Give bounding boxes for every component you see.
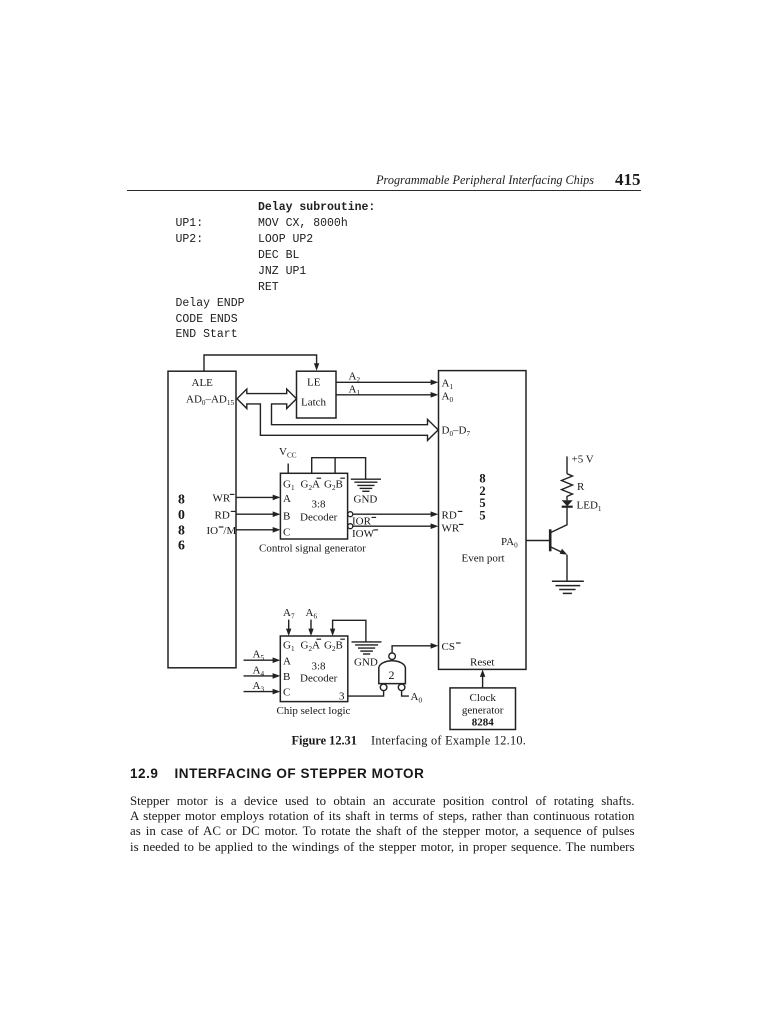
ground GND3 (emitter) [552,581,584,593]
wire A0 to gate right input [402,691,409,697]
svg-text:A: A [283,656,291,668]
wire clock 8284 to 8255 Reset [480,670,485,688]
wire A4 to U2 B [244,673,281,679]
svg-text:WR: WR [442,523,460,535]
svg-text:G2A: G2A [301,479,321,493]
svg-text:Even port: Even port [462,552,505,564]
wire U2 G2B to ground GND2 [330,620,366,641]
gate G2 NAND body [379,661,406,684]
svg-text:VCC: VCC [279,446,297,460]
svg-text:/M: /M [223,525,236,537]
section heading 12.9 [130,766,424,781]
label 3:8 Decoder (U1) [300,499,338,524]
svg-text:A6: A6 [306,607,318,621]
svg-text:3:8: 3:8 [312,661,327,673]
svg-text:G1: G1 [283,640,295,654]
CPU 8086 box [168,371,236,668]
label 8086 vertical [178,492,185,553]
bus AD0-AD15 double arrow with branch to D0-D7 (hollow) [237,389,438,440]
svg-text:R: R [577,481,585,493]
wire RD- 8086 to U1 B [236,511,280,517]
label RD- (8255 pin) [442,510,463,522]
transistor Q1 base bar [549,529,552,551]
label A1 (8255 pin) [442,378,454,392]
transistor Q1 emitter with arrow [551,547,568,555]
assembly code listing [175,199,177,201]
label Latch [301,397,327,409]
svg-text:PA0: PA0 [501,536,518,550]
figure caption [292,734,527,748]
svg-text:LE: LE [307,377,321,389]
label G1 G2A- G2B- (decoder U1 top row) [283,478,345,492]
label GND2 [354,657,378,669]
wire A7 into U2 G1 [286,620,291,636]
label A0 (gate input) [411,691,423,705]
svg-text:Decoder: Decoder [300,673,338,685]
svg-text:RD: RD [442,510,457,522]
label LED1 [577,500,602,514]
svg-text:Latch: Latch [301,397,327,409]
svg-text:A1: A1 [442,378,454,392]
label Reset (8255 pin) [470,657,494,669]
wire A6 into U2 G2A [308,620,313,636]
label R [577,481,585,493]
running head [0,173,594,188]
svg-text:IO: IO [207,525,219,537]
label A B C (decoder U1 inputs) [283,493,291,539]
label 8255 vertical [479,472,485,523]
label D0-D7 (8255 pin) [442,425,471,439]
label Chip select logic [277,705,351,717]
wire LED to transistor collector [551,508,567,533]
svg-text:Decoder: Decoder [300,512,338,524]
wire 8255 PA0 to transistor base [526,540,549,542]
wire U1 G2A G2B to ground [311,458,366,479]
label G1 G2A- G2B- (decoder U2 top row) [283,639,345,653]
svg-text:8: 8 [178,523,185,538]
svg-text:Chip select logic: Chip select logic [277,705,351,717]
label 2 (gate) [389,668,395,682]
wire A3 to U2 C [244,689,281,695]
svg-text:A2: A2 [349,371,361,385]
label Control signal generator [259,543,366,555]
label 3:8 Decoder (U2) [300,661,338,685]
ground GND2 (decoder U2) [352,642,382,654]
label pin 3 (U2 output) [339,691,345,703]
wire A1 latch to 8255 A0 [336,392,438,398]
svg-text:IOW: IOW [352,528,375,540]
svg-text:G1: G1 [283,479,295,493]
label WR- (8255 pin) [442,523,464,535]
label A B C (decoder U2 inputs) [283,656,291,699]
svg-text:A3: A3 [253,680,265,694]
label IOR- [352,516,376,528]
svg-text:0: 0 [178,507,185,522]
svg-text:GND: GND [354,657,378,669]
svg-text:+5 V: +5 V [572,454,594,466]
label PA0 (8255 pin) [501,536,518,550]
svg-text:G2B: G2B [324,640,343,654]
gate G2 input bubble right [398,684,405,691]
svg-text:Clock: Clock [470,692,497,704]
svg-text:C: C [283,687,290,699]
label Even port [462,552,505,564]
svg-text:generator: generator [462,705,504,717]
svg-text:A5: A5 [253,649,265,663]
gate G2 input bubble left [380,684,387,691]
svg-text:LED1: LED1 [577,500,602,514]
svg-text:A7: A7 [283,607,295,621]
svg-text:A1: A1 [349,384,361,398]
wire Vcc to decoder U1 G1 [287,464,289,474]
svg-text:Control signal generator: Control signal generator [259,543,366,555]
diode LED1 symbol [562,500,573,507]
label A2 [349,371,361,385]
PPI 8255 box [439,371,527,670]
svg-text:GND: GND [354,494,378,506]
svg-text:D0–D7: D0–D7 [442,425,471,439]
svg-text:Figure 12.31: Figure 12.31 [292,734,357,748]
wire IOR- U1 to 8255 RD- with junction bubble [348,511,439,517]
label A3 [253,680,265,694]
svg-text:6: 6 [178,538,185,553]
svg-text:A4: A4 [253,665,265,679]
label A1 [349,384,361,398]
wire U2 pin3 to gate left input [348,691,384,697]
svg-text:AD0–AD15: AD0–AD15 [186,394,234,408]
label IO-/M (8086 side) [207,525,237,537]
clock generator 8284 box [450,688,516,730]
svg-text:A0: A0 [442,391,454,405]
label RD- (8086 side) [215,510,236,522]
wire emitter to ground [566,555,568,582]
wire gate output to 8255 CS- [392,643,438,653]
svg-text:G2B: G2B [324,479,343,493]
label +5 V [572,454,594,466]
wire A2 latch to 8255 A1 [336,380,438,386]
label A6 [306,607,318,621]
body paragraph [130,794,635,856]
label CS- (8255 pin) [442,641,461,653]
label IOW- [352,528,378,540]
svg-text:B: B [283,671,290,683]
label GND1 [354,494,378,506]
svg-text:Interfacing of Example 12.10.: Interfacing of Example 12.10. [371,734,526,748]
gate G2 output bubble [389,653,396,660]
svg-text:Reset: Reset [470,657,494,669]
label A4 [253,665,265,679]
svg-text:CS: CS [442,641,455,653]
decoder U2 3:8 box (chip select logic) [280,636,348,702]
wire WR- 8086 to U1 A [236,495,280,501]
svg-text:C: C [283,527,290,539]
wire +5V to resistor R [566,456,568,473]
latch U-latch box [297,371,337,418]
label A7 [283,607,295,621]
label ALE (8086 pin) [192,377,214,389]
svg-text:ALE: ALE [192,377,214,389]
svg-text:B: B [283,511,290,523]
label Clock generator 8284 [462,692,504,729]
wire ALE from 8086 top to latch LE input [204,355,319,371]
svg-text:8284: 8284 [472,717,495,729]
resistor R zigzag [562,474,573,501]
wire IOW- U1 to 8255 WR- with junction bubble [348,523,439,529]
label LE (latch pin) [307,377,321,389]
ground GND1 (decoder U1) [351,479,381,491]
svg-text:WR: WR [213,493,231,505]
svg-text:5: 5 [479,508,485,522]
svg-text:A0: A0 [411,691,423,705]
label Vcc [279,446,297,460]
svg-text:3:8: 3:8 [312,499,327,511]
label AD0-AD15 (8086 bus pin) [186,394,234,408]
svg-text:A: A [283,493,291,505]
wire IO-/M 8086 to U1 C [236,527,280,533]
decoder U1 3:8 box (control signal generator) [280,473,347,539]
wire A5 to U2 A [244,657,281,663]
svg-text:8: 8 [178,492,185,507]
svg-text:RD: RD [215,510,230,522]
label A0 (8255 pin) [442,391,454,405]
label WR- (8086 side) [213,493,235,505]
label A5 [253,649,265,663]
svg-text:2: 2 [389,668,395,682]
svg-text:G2A: G2A [301,640,321,654]
svg-text:3: 3 [339,691,345,703]
